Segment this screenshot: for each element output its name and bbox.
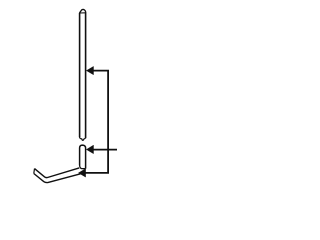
seal chord line inside cap bbox=[80, 12, 86, 14]
top leader arrowhead pointing at tube wall bbox=[86, 66, 93, 74]
bent dropper tube lower edge bbox=[34, 174, 81, 183]
bent dropper tube upper edge bbox=[35, 168, 80, 178]
bent dropper tube open tip edge bbox=[33, 169, 36, 174]
sealed tip cap of capillary tube bbox=[79, 9, 85, 13]
capillary tube left wall bbox=[79, 13, 81, 137]
bottom leader arrowhead pointing at tube-dropper junction bbox=[78, 169, 85, 177]
middle leader arrowhead bbox=[86, 145, 93, 154]
capillary tube right wall bbox=[85, 12, 87, 138]
broken open bottom end of capillary tube bbox=[80, 137, 86, 141]
middle leader line pointing at short segment bbox=[89, 149, 117, 151]
short capillary segment bottom edge bbox=[80, 165, 86, 169]
leader bracket line from top arrow right then down to bottom arrow bbox=[85, 71, 108, 173]
short capillary segment body bbox=[80, 145, 86, 169]
